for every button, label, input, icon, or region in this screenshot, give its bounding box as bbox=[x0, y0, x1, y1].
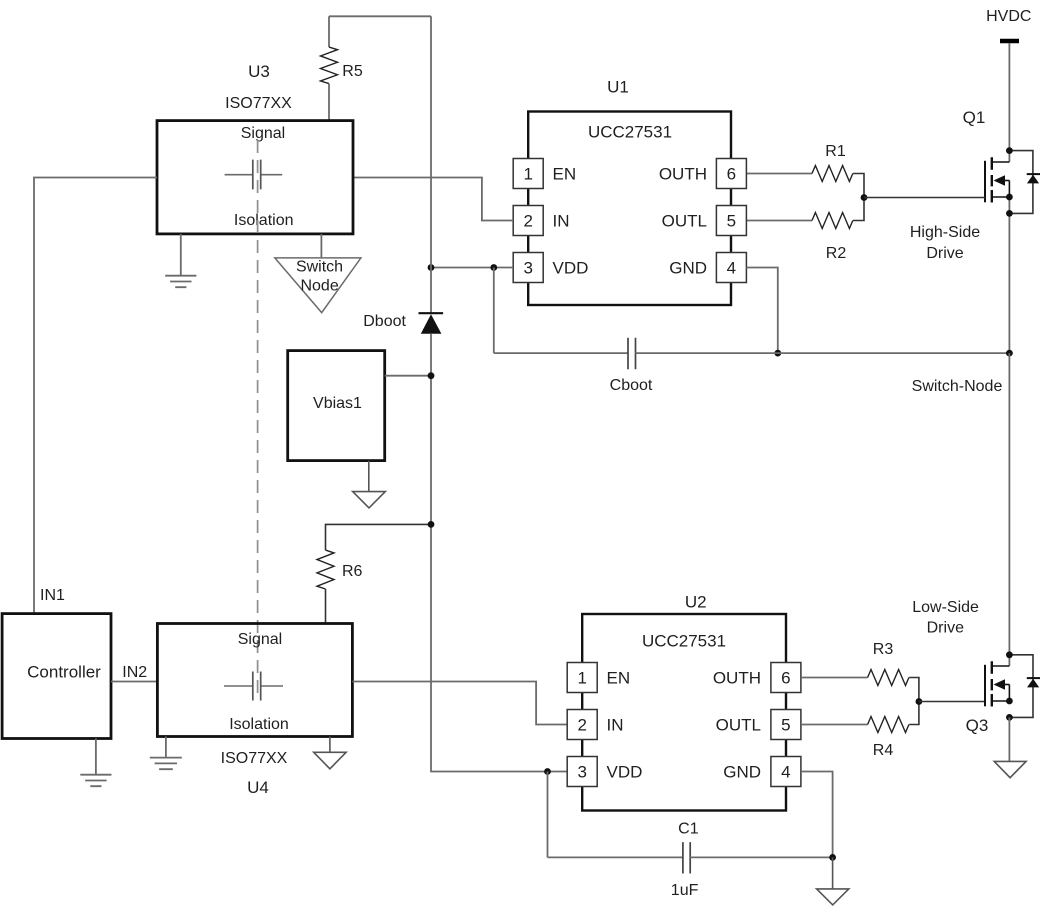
pin 6 square U2 bbox=[771, 663, 801, 693]
wire IN2 Controller to U4 bbox=[111, 681, 157, 683]
junction Q1 drain/diode bbox=[1006, 147, 1013, 154]
resistor R3 bbox=[868, 670, 909, 686]
resistor R5 lead bottom to U3 bbox=[328, 84, 330, 121]
ground U4 left (3-bar) bbox=[150, 737, 182, 770]
wire C1 net right lead bbox=[690, 856, 832, 858]
svg-text:ISO77XX: ISO77XX bbox=[225, 95, 292, 112]
IC U4 body box bbox=[157, 624, 352, 737]
svg-text:Q1: Q1 bbox=[963, 108, 986, 127]
wire U1 pin5 to R2 bbox=[746, 220, 812, 222]
capacitor Cboot plates bbox=[628, 338, 636, 369]
wire R3 to gate junction bbox=[909, 678, 919, 702]
svg-text:OUTH: OUTH bbox=[659, 165, 707, 184]
wire Vbias1 to VDD rail bbox=[385, 375, 431, 377]
capacitor U3 isolation cap bbox=[225, 174, 283, 176]
svg-text:Signal: Signal bbox=[241, 125, 285, 142]
svg-text:Cboot: Cboot bbox=[610, 377, 653, 394]
wire U3 out to U1 pin2 bbox=[353, 178, 513, 221]
svg-text:ISO77XX: ISO77XX bbox=[221, 750, 288, 767]
wire U1 pin4 GND to switch node bbox=[746, 268, 777, 354]
junction switch node rail / Cboot bbox=[1006, 350, 1013, 357]
resistor R6 lead bottom to U4 bbox=[325, 589, 327, 624]
IC U2 bbox=[567, 592, 801, 810]
ground U2 (triangle) bbox=[817, 857, 849, 905]
svg-text:U3: U3 bbox=[248, 62, 270, 81]
wire VDD rail to R6 bbox=[326, 524, 432, 550]
diode D(Q3 body): bar and triangle bbox=[1027, 677, 1040, 679]
wire gate node to Q3 gate bbox=[919, 701, 985, 703]
junction Q1 source/diode bbox=[1006, 210, 1013, 217]
svg-text:4: 4 bbox=[781, 763, 790, 782]
pin 3 square U1 bbox=[513, 253, 543, 283]
ground U4 right (triangle) bbox=[314, 737, 346, 769]
resistor R2 bbox=[812, 213, 853, 229]
wire VDD rail to U1 pin3 bbox=[431, 267, 513, 269]
svg-text:1: 1 bbox=[523, 165, 532, 184]
svg-text:1uF: 1uF bbox=[671, 882, 699, 899]
svg-text:Switch: Switch bbox=[296, 259, 343, 276]
svg-text:Drive: Drive bbox=[927, 620, 964, 637]
junction pin4 wire / Cboot wire bbox=[774, 350, 781, 357]
svg-text:R4: R4 bbox=[873, 742, 894, 759]
ground Q3 (triangle) bbox=[994, 761, 1026, 777]
junction Q3 drain/diode bbox=[1006, 651, 1013, 658]
ground U3 (3-bar) bbox=[165, 234, 196, 287]
svg-text:OUTL: OUTL bbox=[716, 716, 761, 735]
svg-text:U4: U4 bbox=[247, 778, 269, 797]
svg-text:4: 4 bbox=[727, 259, 736, 278]
transistor Q1 body stub with arrow bbox=[1004, 180, 1009, 182]
wire Q3 body diode branch bbox=[1009, 655, 1033, 718]
dashed isolation barrier line bbox=[257, 140, 259, 700]
transistor Q1 source stub bbox=[992, 196, 1010, 198]
transistor Q3 source stub bbox=[992, 700, 1010, 702]
svg-text:OUTL: OUTL bbox=[662, 212, 707, 231]
svg-text:GND: GND bbox=[723, 763, 761, 782]
svg-text:IN: IN bbox=[607, 716, 624, 735]
pin 1 square U1 bbox=[513, 159, 543, 189]
svg-text:R2: R2 bbox=[826, 245, 847, 262]
svg-text:UCC27531: UCC27531 bbox=[642, 632, 726, 651]
wire Q3 source down bbox=[1008, 717, 1010, 761]
wire U3 input from IN1 bbox=[34, 178, 157, 614]
svg-text:IN: IN bbox=[553, 212, 570, 231]
transistor Q3 body stub with arrow bbox=[1004, 684, 1009, 686]
svg-text:1: 1 bbox=[577, 669, 586, 688]
isolator U3 bbox=[157, 62, 353, 234]
ground Vbias1 (triangle) bbox=[353, 461, 386, 508]
IC U2 body box bbox=[582, 614, 786, 811]
pin 3 square U2 bbox=[567, 757, 597, 787]
ground Controller (3-bar) bbox=[80, 739, 111, 787]
wire Cboot net right lead to switch node rail bbox=[636, 352, 1010, 354]
svg-text:6: 6 bbox=[781, 669, 790, 688]
capacitor U4 isolation cap bbox=[224, 685, 283, 687]
junction VDD rail / R6 branch bbox=[428, 521, 435, 528]
svg-text:Q3: Q3 bbox=[966, 716, 989, 735]
svg-text:Switch-Node: Switch-Node bbox=[912, 378, 1003, 395]
wire R5 top to VDD rail bbox=[329, 15, 431, 17]
wire Q1 body to source bbox=[1008, 181, 1010, 198]
wire Q1 body diode branch bbox=[1009, 151, 1033, 214]
svg-text:Node: Node bbox=[300, 278, 338, 295]
wire Cboot tap down bbox=[493, 268, 495, 354]
wire Q1 source down rail to switch node bbox=[1008, 197, 1010, 353]
junction R1/R2 gate node bbox=[861, 194, 868, 201]
diode Dboot bbox=[419, 312, 444, 314]
wire C1 tap down bbox=[547, 772, 549, 858]
wire Q3 body to source bbox=[1008, 685, 1010, 702]
wire HVDC rail down to Q1 drain bbox=[1008, 43, 1010, 162]
svg-text:3: 3 bbox=[523, 259, 532, 278]
wire Cboot net left lead bbox=[494, 352, 628, 354]
svg-text:5: 5 bbox=[781, 716, 790, 735]
svg-text:Drive: Drive bbox=[926, 245, 963, 262]
svg-text:EN: EN bbox=[607, 669, 631, 688]
svg-text:C1: C1 bbox=[678, 821, 699, 838]
svg-text:Controller: Controller bbox=[27, 663, 101, 682]
pin 2 square U1 bbox=[513, 206, 543, 236]
pin 4 square U1 bbox=[716, 253, 746, 283]
svg-text:R5: R5 bbox=[342, 63, 363, 80]
svg-text:GND: GND bbox=[669, 259, 707, 278]
resistor R1 bbox=[812, 166, 853, 182]
transistor Q3 drain stub bbox=[992, 665, 1010, 667]
wire R4 to gate junction bbox=[909, 702, 919, 725]
transistor Q3 channel segments bbox=[991, 661, 993, 706]
pin 4 square U2 bbox=[771, 757, 801, 787]
wire gate node to Q1 gate bbox=[864, 197, 985, 199]
wire C1 net left lead bbox=[548, 856, 683, 858]
transistor Q3 bbox=[966, 661, 1010, 735]
wire VDD rail (lower, Dboot anode down to U2 pin3) bbox=[431, 334, 567, 772]
pin 2 square U2 bbox=[567, 710, 597, 740]
transistor Q1 bbox=[963, 108, 1010, 203]
svg-text:2: 2 bbox=[523, 212, 532, 231]
wire U4 out to U2 pin2 bbox=[352, 682, 567, 725]
svg-text:Low-Side: Low-Side bbox=[912, 599, 979, 616]
IC U1 bbox=[513, 78, 746, 306]
resistor R5 lead top bbox=[328, 16, 330, 47]
block Controller bbox=[2, 614, 111, 739]
capacitor C1 plates bbox=[683, 842, 690, 873]
svg-text:U2: U2 bbox=[685, 592, 707, 611]
junction Q3 source/diode bbox=[1006, 714, 1013, 721]
wire U2 pin4 GND down bbox=[801, 772, 833, 858]
wire U3 to switch node triangle bbox=[320, 234, 322, 258]
resistor R4 bbox=[868, 717, 909, 733]
svg-text:R6: R6 bbox=[342, 563, 363, 580]
svg-text:EN: EN bbox=[553, 165, 577, 184]
svg-text:High-Side: High-Side bbox=[910, 224, 980, 241]
junction C1 tap on U2 pin3 wire bbox=[544, 768, 551, 775]
resistor R6 bbox=[317, 550, 334, 589]
node Switch Node triangle bbox=[275, 258, 361, 313]
svg-text:6: 6 bbox=[727, 165, 736, 184]
svg-text:5: 5 bbox=[727, 212, 736, 231]
junction Q1 source/body bbox=[1006, 194, 1013, 201]
svg-text:Signal: Signal bbox=[238, 631, 282, 648]
transistor Q1 channel segments bbox=[991, 157, 993, 202]
transistor Q3 gate bar bbox=[984, 665, 986, 707]
pin 5 square U1 bbox=[716, 206, 746, 236]
junction R3/R4 gate node bbox=[916, 698, 923, 705]
svg-text:IN1: IN1 bbox=[40, 587, 65, 604]
svg-text:3: 3 bbox=[577, 763, 586, 782]
wire U1 pin6 to R1 bbox=[746, 173, 812, 175]
svg-text:2: 2 bbox=[577, 716, 586, 735]
wire VDD rail (upper, to Dboot cathode) bbox=[430, 16, 432, 313]
IC U3 body box bbox=[157, 121, 353, 234]
svg-text:Isolation: Isolation bbox=[234, 212, 294, 229]
isolator U4 bbox=[157, 624, 352, 798]
pin 1 square U2 bbox=[567, 663, 597, 693]
svg-text:UCC27531: UCC27531 bbox=[588, 123, 672, 142]
svg-text:VDD: VDD bbox=[553, 259, 589, 278]
junction C1 / pin4 ground node bbox=[829, 854, 836, 861]
junction Q3 source/body bbox=[1006, 698, 1013, 705]
svg-text:VDD: VDD bbox=[607, 763, 643, 782]
resistor R5 bbox=[321, 47, 338, 84]
svg-text:R1: R1 bbox=[825, 143, 846, 160]
junction VDD rail / Vbias1 bbox=[428, 372, 435, 379]
svg-text:OUTH: OUTH bbox=[713, 669, 761, 688]
svg-text:Vbias1: Vbias1 bbox=[313, 395, 362, 412]
wire R2 to gate junction bbox=[853, 198, 864, 221]
diode D(Q1 body): bar and triangle bbox=[1027, 173, 1040, 175]
Controller body box bbox=[2, 614, 111, 739]
power bar HVDC bbox=[1000, 39, 1019, 44]
source Vbias1 bbox=[288, 351, 385, 461]
IC U1 body box bbox=[528, 112, 731, 306]
wire R1 to gate junction bbox=[853, 174, 864, 198]
svg-text:Dboot: Dboot bbox=[363, 313, 406, 330]
junction Cboot tap on pin3 wire bbox=[490, 264, 497, 271]
svg-text:R3: R3 bbox=[873, 641, 894, 658]
svg-text:HVDC: HVDC bbox=[986, 8, 1031, 25]
wire U2 pin6 to R3 bbox=[801, 677, 868, 679]
wire U2 pin5 to R4 bbox=[801, 724, 868, 726]
pin 6 square U1 bbox=[716, 159, 746, 189]
wire switch node rail down to Q3 drain bbox=[1008, 353, 1010, 666]
svg-text:U1: U1 bbox=[607, 78, 629, 97]
transistor Q1 gate bar bbox=[984, 161, 986, 203]
pin 5 square U2 bbox=[771, 710, 801, 740]
svg-text:Isolation: Isolation bbox=[229, 716, 289, 733]
svg-text:IN2: IN2 bbox=[122, 664, 147, 681]
junction VDD rail / pin3 wire bbox=[428, 264, 435, 271]
Vbias1 body box bbox=[288, 351, 385, 461]
transistor Q1 drain stub bbox=[992, 161, 1010, 163]
